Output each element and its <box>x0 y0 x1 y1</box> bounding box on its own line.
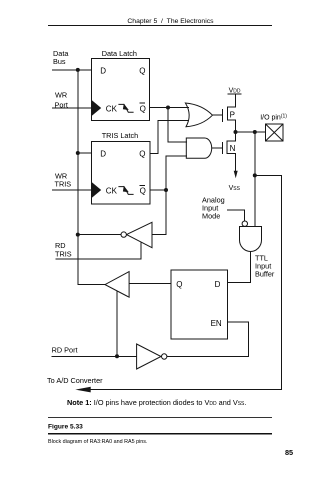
svg-text:D: D <box>215 280 221 289</box>
node P/N drain junction <box>234 130 238 134</box>
bubble on TTL buffer input <box>242 221 247 226</box>
wire to A/D converter rail <box>91 175 282 389</box>
wire OR output to P gate <box>213 114 223 116</box>
svg-text:TRIS Latch: TRIS Latch <box>102 131 139 140</box>
latch U3 input latch box <box>171 270 228 339</box>
svg-text:Buffer: Buffer <box>255 269 275 278</box>
I/O pin pad symbol <box>266 124 284 141</box>
wire down to TTL input buffer <box>254 132 256 227</box>
transistor Q2 N-channel MOSFET <box>221 142 223 154</box>
wire WR TRIS <box>52 189 92 191</box>
svg-text:TRIS: TRIS <box>55 180 72 189</box>
clock arrowhead Data Latch CK <box>92 100 101 115</box>
figure caption rule thick <box>48 433 272 435</box>
node data bus / RD TRIS buffer output <box>76 233 80 237</box>
node data bus junction top <box>76 68 80 72</box>
svg-text:D: D <box>100 149 106 158</box>
arrowhead To A/D Converter <box>75 387 90 393</box>
wire AND output to N gate <box>212 147 223 149</box>
wire latch Q to buffer input <box>129 283 171 285</box>
ttl input buffer G3 <box>240 227 262 252</box>
or-gate G1 <box>185 103 212 127</box>
wire data bus horizontal <box>52 69 91 71</box>
svg-text:Q: Q <box>139 149 145 158</box>
node A/D branch junction <box>253 173 257 177</box>
svg-text:RD Port: RD Port <box>52 345 78 354</box>
svg-text:Figure 5.33: Figure 5.33 <box>48 423 83 430</box>
svg-text:N: N <box>230 144 236 153</box>
svg-text:Bus: Bus <box>53 57 66 66</box>
bubble tri-state inverter output <box>121 232 126 237</box>
node Qbar junction <box>166 106 170 110</box>
node RD Port junction <box>115 354 119 358</box>
power VSS arrow <box>234 171 238 178</box>
svg-text:EN: EN <box>211 319 222 328</box>
svg-text:VSS: VSS <box>229 185 241 192</box>
svg-text:Q: Q <box>140 104 146 113</box>
wire RD Port <box>52 355 137 357</box>
buffer G4 (to data bus) <box>105 272 129 298</box>
clock arrowhead TRIS Latch CK <box>92 182 101 197</box>
wire junction up to AND gate lower input <box>166 156 187 190</box>
svg-text:To A/D Converter: To A/D Converter <box>47 376 103 385</box>
svg-text:CK: CK <box>106 187 118 196</box>
svg-text:TRIS: TRIS <box>55 249 72 258</box>
and-gate G2 <box>186 138 211 158</box>
svg-text:Note 1: I/O pins have protecti: Note 1: I/O pins have protection diodes … <box>67 398 246 407</box>
wire TTL buffer output to latch D <box>228 252 251 283</box>
figure caption rule thin <box>48 416 272 418</box>
svg-text:P: P <box>230 110 235 119</box>
node data bus / TRIS D <box>76 151 80 155</box>
svg-text:WR: WR <box>55 90 67 99</box>
svg-text:Data Latch: Data Latch <box>102 49 137 58</box>
wire data bus vertical + buffer output <box>78 70 105 285</box>
svg-text:CK: CK <box>106 104 118 113</box>
wire Data Latch Qbar to OR gate <box>150 107 189 109</box>
wire tri-state output to data bus <box>78 234 121 236</box>
node TRIS Qbar junction <box>164 188 168 192</box>
svg-text:D: D <box>100 67 106 76</box>
wire TRIS Q up to OR gate lower input <box>150 121 189 154</box>
svg-text:Block diagram of RA3:RA0 and R: Block diagram of RA3:RA0 and RA5 pins. <box>48 439 147 445</box>
svg-text:Q: Q <box>139 67 145 76</box>
wire Analog Input Mode to buffer <box>227 210 245 221</box>
svg-text:85: 85 <box>285 448 293 457</box>
tri-state inverter G5 (RD TRIS) <box>127 222 153 247</box>
bubble inverter output <box>162 354 167 359</box>
wire TRIS D input <box>78 152 92 154</box>
wire WR Port <box>52 107 92 109</box>
inverter G6 (RD Port to EN) <box>137 344 161 369</box>
clock edge symbol (TRIS Latch) <box>118 187 133 195</box>
node I/O branch junction <box>253 130 257 134</box>
wire drain node to I/O pin <box>236 131 266 133</box>
wire junction down to tri-state inverter input <box>152 190 166 235</box>
wire TRIS Qbar <box>150 189 166 191</box>
wire buffer enable <box>116 291 118 357</box>
latch U2 TRIS Latch box <box>91 142 149 204</box>
svg-text:Mode: Mode <box>202 211 220 220</box>
transistor Q1 P-channel MOSFET <box>221 109 223 122</box>
clock edge symbol (Data Latch) <box>118 104 133 112</box>
svg-text:Chapter 5 / The Electronics: Chapter 5 / The Electronics <box>127 18 214 25</box>
wire RD TRIS <box>56 242 141 259</box>
wire junction down to AND gate upper input <box>168 108 187 143</box>
svg-text:Q: Q <box>140 187 146 196</box>
svg-text:Q: Q <box>176 280 182 289</box>
wire inverter output to latch EN <box>167 322 249 357</box>
header rule <box>48 24 272 26</box>
